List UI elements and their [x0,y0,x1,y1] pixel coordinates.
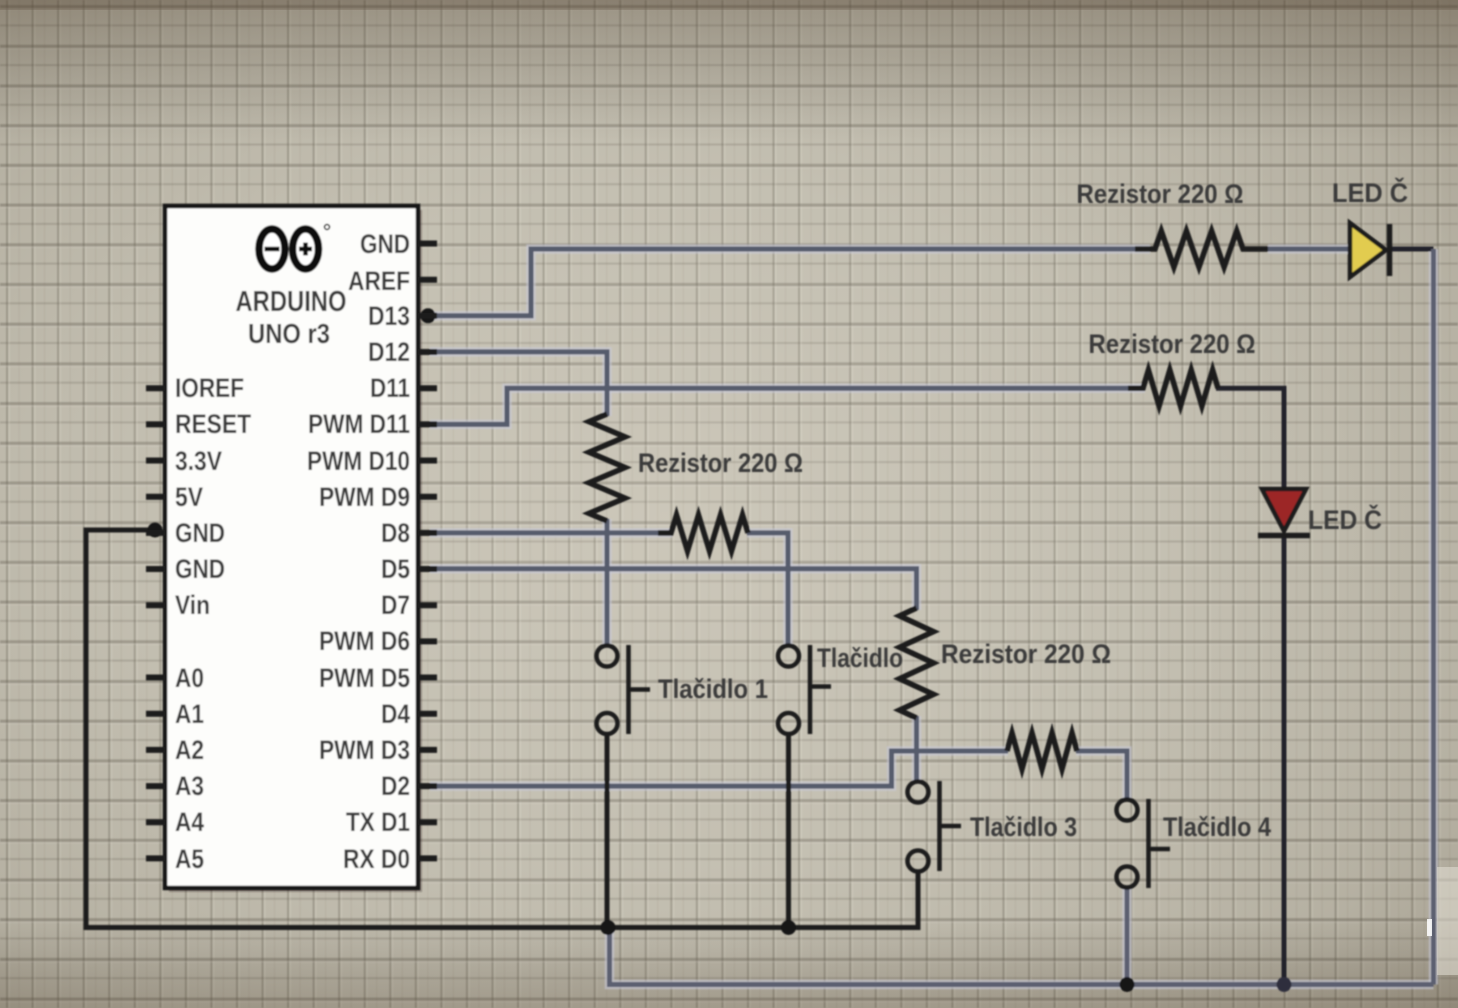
resistor R4 [658,515,748,551]
resistor R3 vertical [589,414,625,521]
Arduino U1 body [165,206,422,892]
junction dot bottom net at S4 [1120,977,1135,992]
svg-text:LED Č: LED Č [1308,504,1382,535]
wire button S2 bottom to GND rail [786,734,791,928]
wire button S1 bottom to GND rail [605,734,610,928]
junction dot D13 pin [421,308,436,323]
Arduino logo [259,225,330,270]
svg-text:D8: D8 [381,518,410,548]
svg-text:GND: GND [360,229,410,259]
wire LED1 anode segment [1268,247,1350,252]
svg-text:Rezistor 220 Ω: Rezistor 220 Ω [1089,329,1256,359]
pin PWM D3 stub [418,747,437,753]
svg-text:Rezistor 220 Ω: Rezistor 220 Ω [638,448,803,478]
svg-text:TX D1: TX D1 [346,807,410,837]
pin labels left [175,373,251,874]
svg-text:D11: D11 [370,373,410,403]
pin A4 stub [146,819,165,825]
svg-text:D5: D5 [381,554,410,584]
pin D8 stub [418,530,437,536]
svg-text:PWM D6: PWM D6 [319,626,410,656]
svg-text:A4: A4 [175,807,204,837]
svg-text:3.3V: 3.3V [175,446,222,476]
pin PWM D6 stub [418,638,437,644]
pin D7 stub [418,602,437,608]
resistor R5 vertical [900,608,934,718]
svg-text:GND: GND [175,518,225,548]
svg-text:Rezistor 220 Ω: Rezistor 220 Ω [1077,179,1244,209]
button S4 [1117,799,1171,888]
pin D12 stub [418,349,437,355]
wire button S4 bottom to bottom net [1125,887,1130,985]
svg-text:5V: 5V [175,482,203,512]
pin AREF stub [418,277,437,283]
svg-text:PWM D9: PWM D9 [319,482,410,512]
wire resistor R5 to button S3 [914,716,919,781]
pin D11 stub [418,385,437,391]
svg-text:Rezistor 220 Ω: Rezistor 220 Ω [941,639,1111,669]
pin D13 stub [418,313,437,319]
wire PWM D11 to resistor R2 [430,388,1145,424]
svg-text:A5: A5 [175,844,204,874]
svg-text:UNO r3: UNO r3 [248,318,330,349]
pin TX D1 stub [418,819,437,825]
LED D1 yellow [1350,223,1390,277]
wire resistor R3 to button S1 [605,519,610,645]
junction dot GND rail at S1 [601,920,616,935]
svg-text:D12: D12 [368,337,410,367]
pin D4 stub [418,711,437,717]
pin PWM D5 stub [418,675,437,681]
svg-text:Tlačidlo 4: Tlačidlo 4 [1163,812,1271,842]
resistor R2 [1128,370,1218,406]
pin GND1 stub [146,530,165,536]
svg-text:PWM D11: PWM D11 [308,409,410,439]
junction dot GND pin [148,523,163,538]
wire bottom net [610,927,1434,985]
button S3 [908,781,962,872]
wire GND rail black [86,530,918,928]
pin IOREF stub [146,385,165,391]
svg-text:LED Č: LED Č [1332,177,1408,208]
wire resistor R6 to button S4 [1076,751,1127,800]
resistor R6 [1007,733,1077,769]
pin PWM D9 stub [418,494,437,500]
pins: stubs [146,244,437,859]
svg-text:D7: D7 [381,590,410,620]
pin GND top stub [418,241,437,247]
pin D2 stub [418,783,437,789]
pin labels right [307,229,410,874]
svg-text:A0: A0 [175,663,204,693]
junction dot bottom net at LED2 [1277,977,1292,992]
pin A0 stub [146,675,165,681]
svg-text:D2: D2 [381,771,410,801]
resistor R1 [1135,231,1268,267]
svg-text:Tlačidlo: Tlačidlo [817,643,903,673]
pin A3 stub [146,783,165,789]
svg-text:A2: A2 [175,735,204,765]
svg-text:RX D0: RX D0 [343,844,410,874]
svg-text:PWM D5: PWM D5 [319,663,410,693]
pin D5a stub [418,566,437,572]
wire resistor R2 to LED2 [1216,388,1284,488]
pin GND2 stub [146,566,165,572]
wire LED2 cathode down to bottom net [1282,538,1287,985]
svg-text:IOREF: IOREF [175,373,244,403]
wire D13 to resistor R1 [430,249,1150,316]
svg-text:Vin: Vin [175,590,210,620]
svg-text:AREF: AREF [348,266,410,296]
wire LED1 cathode to right edge [1391,247,1434,252]
pin A5 stub [146,855,165,861]
wire resistor R4 to button S2 [747,533,788,645]
light panel artifact bottom right [1437,867,1458,975]
junction dot GND rail at S2 [781,920,796,935]
button S1 [597,645,651,734]
pin PWM D11 stub [418,421,437,427]
svg-text:D13: D13 [368,301,410,331]
svg-text:GND: GND [175,554,225,584]
svg-text:PWM D10: PWM D10 [307,446,410,476]
svg-text:A3: A3 [175,771,204,801]
wire D12 down to resistor R3 [430,352,607,416]
svg-text:A1: A1 [175,699,204,729]
wire D8 to resistor R4 [430,530,672,535]
pin 5V stub [146,494,165,500]
svg-text:Tlačidlo 3: Tlačidlo 3 [970,812,1077,842]
svg-text:Tlačidlo 1: Tlačidlo 1 [658,674,768,704]
pin Vin stub [146,602,165,608]
pin PWM D10 stub [418,458,437,464]
pin A2 stub [146,747,165,753]
svg-text:D4: D4 [381,699,410,729]
wire right edge vertical [1431,249,1436,985]
wire halo [430,249,1434,985]
wire D2 to resistor R6 [430,751,1008,786]
pin A1 stub [146,711,165,717]
svg-text:ARDUINO: ARDUINO [236,286,347,318]
pin 3.3V stub [146,458,165,464]
pin RX D0 stub [418,855,437,861]
pin RESET stub [146,421,165,427]
wire D5 to resistor R5 [430,569,917,610]
LED D2 red [1258,489,1310,536]
button S2 [778,645,831,734]
svg-text:RESET: RESET [175,409,251,439]
svg-text:PWM D3: PWM D3 [319,735,410,765]
